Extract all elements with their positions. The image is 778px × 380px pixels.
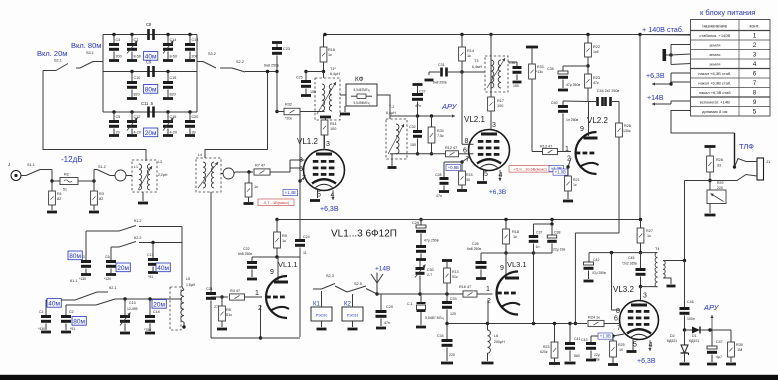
- svg-text:C33: C33: [450, 297, 457, 301]
- svg-text:200: 200: [116, 55, 122, 59]
- svg-text:S2.5: S2.5: [354, 282, 362, 286]
- svg-text:8: 8: [753, 89, 757, 96]
- svg-text:4-20: 4-20: [170, 131, 177, 135]
- svg-text:6,4μН: 6,4μН: [386, 111, 396, 115]
- svg-text:C16: C16: [170, 115, 177, 119]
- svg-text:150: 150: [513, 84, 519, 88]
- svg-text:*91: *91: [148, 275, 153, 279]
- svg-text:C43: C43: [581, 338, 587, 342]
- svg-text:C37: C37: [536, 231, 542, 235]
- svg-text:20м: 20м: [117, 265, 129, 272]
- svg-text:1к: 1к: [647, 234, 651, 238]
- svg-text:1н: 1н: [536, 245, 540, 249]
- svg-text:S3.2: S3.2: [208, 52, 216, 56]
- svg-text:R29: R29: [717, 181, 723, 185]
- svg-text:S1.1: S1.1: [27, 163, 35, 167]
- svg-text:*13к: *13к: [536, 70, 543, 74]
- svg-text:1к: 1к: [328, 53, 332, 57]
- svg-text:8: 8: [465, 138, 469, 145]
- svg-text:1: 1: [753, 32, 757, 39]
- svg-text:C23: C23: [283, 47, 290, 51]
- svg-text:9: 9: [500, 265, 504, 272]
- svg-text:4-20: 4-20: [134, 131, 141, 135]
- svg-text:47н: 47н: [436, 194, 442, 198]
- svg-text:82: 82: [99, 197, 103, 201]
- svg-text:L5: L5: [186, 277, 190, 281]
- svg-text:6н8 250в: 6н8 250в: [467, 247, 481, 251]
- svg-text:4μ7: 4μ7: [716, 355, 722, 359]
- svg-text:C1: C1: [39, 310, 44, 314]
- svg-text:3: 3: [492, 122, 496, 129]
- svg-text:конт.: конт.: [749, 24, 759, 29]
- svg-text:Вкл. 20м: Вкл. 20м: [37, 49, 67, 58]
- svg-text:51к: 51к: [452, 275, 458, 279]
- svg-text:3: 3: [326, 141, 330, 148]
- svg-text:VL2.1: VL2.1: [464, 115, 485, 124]
- svg-text:VL3.2: VL3.2: [613, 285, 634, 294]
- svg-text:R2: R2: [64, 173, 69, 177]
- svg-text:C42: C42: [593, 258, 599, 262]
- svg-text:51к: 51к: [226, 313, 232, 317]
- svg-text:динамик 8 ом: динамик 8 ом: [702, 109, 727, 114]
- svg-text:К2.2: К2.2: [134, 236, 142, 240]
- svg-text:*750: *750: [144, 328, 151, 332]
- svg-text:C4: C4: [116, 38, 121, 42]
- svg-text:40м: 40м: [48, 300, 60, 307]
- svg-text:20м: 20м: [153, 301, 165, 308]
- svg-text:39: 39: [192, 131, 196, 135]
- svg-text:80м: 80м: [69, 253, 81, 260]
- svg-text:R11: R11: [330, 122, 337, 126]
- svg-text:C11 .5: C11 .5: [141, 101, 154, 106]
- svg-text:*120: *120: [104, 277, 111, 281]
- svg-text:R25: R25: [618, 343, 625, 347]
- svg-text:6н8 250в: 6н8 250в: [238, 252, 252, 256]
- svg-text:+1,4В: +1,4В: [285, 190, 296, 195]
- svg-text:+6,3В: +6,3В: [646, 73, 665, 80]
- svg-text:C40: C40: [551, 101, 558, 105]
- svg-text:накал +6,3В стаб.: накал +6,3В стаб.: [698, 71, 731, 76]
- svg-text:C13: C13: [129, 301, 136, 305]
- svg-text:C35: C35: [547, 67, 554, 71]
- svg-text:C12: C12: [134, 115, 141, 119]
- svg-text:47к: 47к: [593, 81, 599, 85]
- svg-text:R1: R1: [57, 192, 62, 196]
- svg-text:D1: D1: [692, 334, 697, 338]
- svg-text:C36: C36: [509, 61, 515, 65]
- svg-text:200μН: 200μН: [494, 340, 505, 344]
- svg-text:+5,9...10,6В(макс): +5,9...10,6В(макс): [514, 166, 548, 171]
- svg-text:1к: 1к: [254, 185, 258, 189]
- svg-text:+14В: +14В: [647, 95, 664, 102]
- svg-text:S2.1: S2.1: [54, 59, 62, 63]
- svg-text:R18: R18: [512, 230, 519, 234]
- svg-text:620к: 620к: [540, 350, 548, 354]
- svg-text:R21: R21: [573, 178, 580, 182]
- svg-text:5,5494МГц: 5,5494МГц: [354, 101, 370, 105]
- svg-text:C24: C24: [303, 235, 310, 239]
- svg-text:К1.2: К1.2: [134, 219, 142, 223]
- svg-text:1,6μН: 1,6μН: [186, 283, 196, 287]
- svg-text:L4: L4: [198, 153, 202, 157]
- svg-text:C28: C28: [435, 173, 441, 177]
- svg-text:S2.3: S2.3: [326, 274, 334, 278]
- svg-text:земля: земля: [709, 61, 720, 66]
- svg-text:C20: C20: [386, 305, 393, 309]
- svg-text:51: 51: [63, 188, 67, 192]
- svg-text:R24 1к: R24 1к: [588, 316, 600, 320]
- svg-text:5,5467МГц: 5,5467МГц: [354, 88, 370, 92]
- svg-text:*130: *130: [79, 277, 86, 281]
- svg-text:820: 820: [170, 93, 176, 97]
- svg-text:L6: L6: [494, 334, 498, 338]
- svg-text:82: 82: [57, 197, 61, 201]
- svg-text:земля: земля: [709, 52, 720, 57]
- svg-text:7: 7: [753, 80, 757, 87]
- svg-text:100: 100: [330, 127, 336, 131]
- svg-text:R30: R30: [736, 343, 743, 347]
- svg-text:D2: D2: [670, 334, 675, 338]
- svg-text:АРУ: АРУ: [441, 102, 458, 111]
- svg-text:100: 100: [497, 104, 503, 108]
- svg-text:вспомогат. +14В: вспомогат. +14В: [700, 99, 730, 104]
- svg-text:S1.2: S1.2: [98, 165, 106, 169]
- svg-text:7,5к: 7,5к: [437, 134, 444, 138]
- svg-text:C22: C22: [243, 247, 250, 251]
- svg-text:220: 220: [449, 353, 455, 357]
- svg-text:*2х2 165в: *2х2 165в: [622, 262, 637, 266]
- svg-text:земля: земля: [709, 42, 720, 47]
- svg-text:C46: C46: [687, 300, 694, 304]
- svg-text:R7 47: R7 47: [255, 164, 265, 168]
- svg-text:накал +6,3В стаб: накал +6,3В стаб: [699, 90, 732, 95]
- svg-text:1М: 1М: [737, 348, 742, 352]
- svg-text:РЭС63: РЭС63: [347, 314, 359, 318]
- svg-text:4: 4: [753, 61, 757, 68]
- svg-text:1к: 1к: [513, 235, 517, 239]
- svg-text:*20к: *20к: [285, 117, 292, 121]
- svg-text:К1.1: К1.1: [70, 279, 78, 283]
- svg-text:назначение: назначение: [702, 24, 727, 29]
- svg-text:6,4μН: 6,4μН: [330, 72, 340, 76]
- svg-text:80м: 80м: [145, 86, 157, 93]
- svg-text:80м: 80м: [73, 318, 85, 325]
- svg-text:C5: C5: [116, 115, 121, 119]
- svg-text:К2.1: К2.1: [109, 286, 117, 290]
- svg-text:S3.1: S3.1: [86, 51, 94, 55]
- svg-text:C19: C19: [192, 38, 199, 42]
- svg-text:ТЛФ: ТЛФ: [739, 142, 754, 151]
- svg-text:РЭС60: РЭС60: [316, 314, 328, 318]
- svg-text:-0,7...1В(макс): -0,7...1В(макс): [263, 200, 290, 205]
- svg-text:6н8 250в: 6н8 250в: [264, 64, 279, 68]
- svg-text:1к: 1к: [573, 183, 577, 187]
- svg-text:C2: C2: [69, 310, 74, 314]
- svg-text:С-1: С-1: [407, 302, 413, 306]
- svg-text:R33: R33: [537, 65, 544, 69]
- svg-text:Вкл. 80м: Вкл. 80м: [71, 41, 101, 50]
- svg-text:29: 29: [116, 131, 120, 135]
- svg-text:1: 1: [255, 290, 259, 297]
- svg-text:R13 47: R13 47: [540, 145, 552, 149]
- svg-text:VL2.2: VL2.2: [587, 116, 608, 125]
- svg-text:R4 47: R4 47: [230, 289, 240, 293]
- svg-text:C10: C10: [134, 76, 141, 80]
- svg-text:*430: *430: [38, 327, 45, 331]
- svg-text:R9: R9: [282, 234, 287, 238]
- svg-text:5: 5: [484, 171, 488, 178]
- svg-text:47н: 47н: [384, 321, 390, 325]
- svg-text:47μ 250в: 47μ 250в: [424, 239, 439, 243]
- svg-text:40м: 40м: [145, 53, 157, 60]
- svg-text:C34: C34: [437, 334, 444, 338]
- svg-text:L3: L3: [158, 160, 162, 164]
- svg-text:1: 1: [486, 286, 490, 293]
- svg-text:Т-2: Т-2: [389, 105, 394, 109]
- svg-text:C44 2х2 250в: C44 2х2 250в: [597, 89, 619, 93]
- svg-text:накал +6,3В стаб.: накал +6,3В стаб.: [698, 80, 731, 85]
- svg-text:12-495: 12-495: [127, 307, 138, 311]
- svg-text:АРУ: АРУ: [703, 303, 720, 312]
- svg-text:*91: *91: [70, 327, 75, 331]
- svg-text:+6,3В: +6,3В: [637, 358, 656, 365]
- svg-text:4: 4: [649, 342, 653, 349]
- svg-text:33: 33: [717, 164, 721, 168]
- svg-text:R5: R5: [226, 308, 231, 312]
- svg-text:R14: R14: [467, 49, 474, 53]
- svg-text:C32: C32: [409, 125, 416, 129]
- svg-text:КД521: КД521: [689, 339, 699, 343]
- svg-text:L1: L1: [134, 165, 138, 169]
- svg-text:C17: C17: [147, 253, 154, 257]
- svg-text:VL1...3 6Ф12П: VL1...3 6Ф12П: [331, 229, 397, 240]
- svg-text:R23: R23: [593, 76, 600, 80]
- svg-text:КД521: КД521: [667, 339, 677, 343]
- svg-text:VL1.1: VL1.1: [278, 260, 298, 269]
- svg-text:C47: C47: [716, 340, 723, 344]
- svg-text:6,4мН: 6,4мН: [472, 65, 482, 69]
- svg-text:R3: R3: [99, 192, 104, 196]
- svg-text:47μ 250в: 47μ 250в: [566, 83, 580, 87]
- svg-text:3: 3: [643, 293, 647, 300]
- svg-text:1к: 1к: [467, 54, 471, 58]
- svg-text:11: 11: [303, 251, 307, 255]
- svg-text:R23: R23: [543, 345, 549, 349]
- svg-text:VL3.1: VL3.1: [507, 260, 527, 269]
- svg-text:-12дБ: -12дБ: [61, 155, 82, 164]
- svg-text:C38: C38: [554, 231, 560, 235]
- svg-text:C15: C15: [170, 76, 177, 80]
- svg-text:S2.2: S2.2: [236, 60, 244, 64]
- svg-text:C45: C45: [628, 256, 634, 260]
- svg-text:1н 250в: 1н 250в: [566, 118, 578, 122]
- svg-text:C31: C31: [438, 63, 445, 67]
- svg-text:22μ: 22μ: [594, 353, 600, 357]
- svg-text:6н8 250в: 6н8 250в: [433, 81, 447, 85]
- svg-text:9: 9: [270, 269, 274, 276]
- svg-text:C27: C27: [419, 90, 426, 94]
- svg-text:Т3: Т3: [474, 59, 478, 63]
- svg-text:10: 10: [619, 348, 623, 352]
- svg-text:+ 140В стаб.: + 140В стаб.: [642, 25, 684, 34]
- svg-text:C7: C7: [134, 38, 139, 42]
- svg-text:16в: 16в: [594, 358, 600, 362]
- svg-text:8-50: 8-50: [170, 55, 177, 59]
- svg-text:C25: C25: [296, 76, 303, 80]
- svg-text:8: 8: [616, 308, 620, 315]
- svg-text:40м: 40м: [157, 265, 169, 272]
- svg-text:стабилиз. +140В: стабилиз. +140В: [699, 33, 730, 38]
- svg-text:R16 47: R16 47: [459, 285, 471, 289]
- svg-text:R22: R22: [593, 45, 600, 49]
- svg-text:R28: R28: [716, 158, 723, 162]
- svg-text:+6,3В: +6,3В: [489, 189, 506, 196]
- svg-text:к блоку питания: к блоку питания: [700, 8, 755, 17]
- svg-text:R31: R31: [437, 129, 444, 133]
- svg-text:R13: R13: [452, 270, 459, 274]
- svg-text:R12 47: R12 47: [445, 146, 457, 150]
- svg-text:J: J: [8, 162, 10, 167]
- svg-text:200: 200: [192, 55, 198, 59]
- svg-text:C18: C18: [153, 310, 160, 314]
- svg-text:C26: C26: [472, 242, 479, 246]
- svg-text:5,5487 МГц: 5,5487 МГц: [425, 316, 444, 320]
- svg-text:3: 3: [753, 51, 757, 58]
- svg-text:R26: R26: [624, 124, 631, 128]
- svg-text:+0,9В: +0,9В: [448, 165, 459, 170]
- svg-text:C20: C20: [192, 115, 199, 119]
- svg-text:Т4: Т4: [655, 247, 659, 251]
- svg-text:4: 4: [499, 172, 503, 179]
- svg-text:130к: 130к: [623, 129, 631, 133]
- svg-text:9: 9: [580, 126, 584, 133]
- svg-text:R17: R17: [497, 99, 504, 103]
- svg-text:150: 150: [410, 143, 416, 147]
- svg-text:C21: C21: [206, 287, 213, 291]
- svg-text:47н: 47н: [415, 104, 421, 108]
- svg-text:C29: C29: [412, 221, 419, 225]
- svg-text:2,2μН: 2,2μН: [158, 173, 168, 177]
- svg-text:2-7: 2-7: [427, 273, 432, 277]
- svg-text:820: 820: [134, 93, 140, 97]
- svg-text:+6,3В: +6,3В: [320, 206, 339, 213]
- svg-text:22μ 19в: 22μ 19в: [553, 248, 565, 252]
- svg-text:C6: C6: [105, 255, 110, 259]
- svg-text:R16: R16: [328, 48, 335, 52]
- svg-text:C8: C8: [146, 22, 152, 27]
- svg-text:2: 2: [753, 42, 757, 49]
- svg-text:560: 560: [574, 354, 580, 358]
- svg-text:20м: 20м: [145, 130, 157, 137]
- svg-text:Т1*: Т1*: [330, 67, 336, 71]
- svg-text:6: 6: [753, 70, 757, 77]
- svg-text:6: 6: [614, 316, 618, 323]
- svg-text:47μ 250в: 47μ 250в: [592, 271, 606, 275]
- svg-text:R27: R27: [646, 229, 653, 233]
- svg-text:+1,0В: +1,0В: [555, 170, 566, 175]
- svg-text:9: 9: [753, 99, 757, 106]
- svg-text:КФ: КФ: [355, 76, 364, 83]
- svg-text:C14: C14: [170, 38, 177, 42]
- svg-text:120: 120: [450, 312, 456, 316]
- svg-text:C41: C41: [574, 337, 580, 341]
- svg-text:+14В: +14В: [375, 266, 390, 273]
- svg-text:30: 30: [466, 178, 470, 182]
- svg-text:6: 6: [463, 148, 467, 155]
- svg-text:220: 220: [717, 186, 723, 190]
- svg-text:5: 5: [633, 342, 637, 349]
- svg-text:R32: R32: [285, 103, 292, 107]
- svg-text:R15: R15: [466, 173, 473, 177]
- svg-text:100н: 100н: [687, 317, 695, 321]
- svg-text:C30: C30: [427, 268, 434, 272]
- svg-text:5: 5: [753, 108, 757, 115]
- svg-text:8-50: 8-50: [134, 55, 141, 59]
- svg-text:7: 7: [617, 325, 621, 332]
- svg-text:+1,0В: +1,0В: [600, 334, 611, 339]
- svg-text:1к5: 1к5: [593, 50, 599, 54]
- svg-text:1к: 1к: [282, 239, 286, 243]
